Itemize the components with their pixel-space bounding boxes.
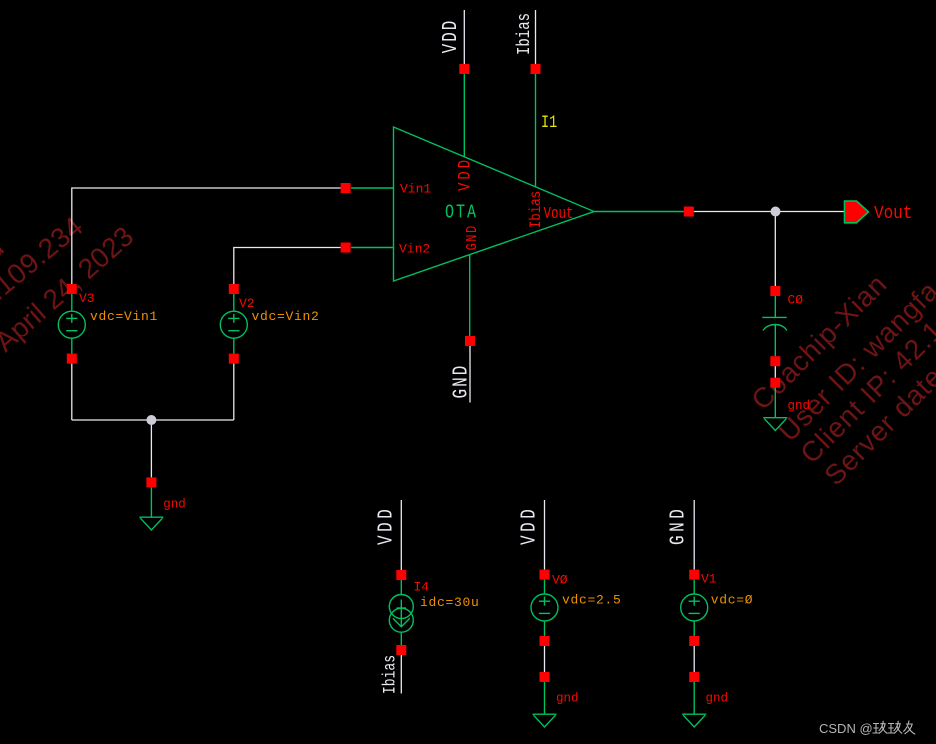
svg-text:gnd: gnd	[706, 692, 729, 706]
svg-text:VØ: VØ	[552, 573, 568, 588]
svg-text:Ibias: Ibias	[380, 655, 400, 694]
svg-text:I4: I4	[414, 580, 430, 595]
svg-text:gnd: gnd	[788, 399, 811, 413]
svg-text:GND: GND	[465, 224, 482, 250]
svg-text:vdc=Ø: vdc=Ø	[711, 593, 754, 608]
svg-text:V1: V1	[701, 572, 717, 587]
svg-text:VDD: VDD	[455, 157, 475, 191]
svg-text:VDD: VDD	[516, 506, 541, 545]
svg-text:V3: V3	[79, 291, 95, 306]
svg-text:GND: GND	[448, 364, 473, 399]
svg-text:Vout: Vout	[874, 203, 912, 225]
svg-text:OTA: OTA	[445, 202, 478, 225]
svg-text:Vin2: Vin2	[399, 242, 430, 257]
svg-text:idc=30u: idc=30u	[420, 595, 480, 610]
svg-text:I1: I1	[541, 112, 557, 132]
svg-text:gnd: gnd	[556, 692, 579, 706]
svg-text:GND: GND	[665, 506, 690, 545]
svg-text:vdc=2.5: vdc=2.5	[562, 593, 622, 608]
svg-text:CØ: CØ	[788, 293, 804, 308]
svg-text:Vin1: Vin1	[400, 182, 431, 197]
svg-text:VDD: VDD	[438, 19, 463, 54]
svg-text:gnd: gnd	[163, 498, 186, 512]
svg-text:vdc=Vin1: vdc=Vin1	[90, 309, 158, 324]
svg-text:VDD: VDD	[373, 506, 398, 545]
svg-text:vdc=Vin2: vdc=Vin2	[252, 309, 320, 324]
svg-text:CSDN @: CSDN @	[819, 721, 873, 736]
svg-text:Vout: Vout	[544, 206, 574, 224]
svg-text:Ibias: Ibias	[513, 13, 535, 55]
